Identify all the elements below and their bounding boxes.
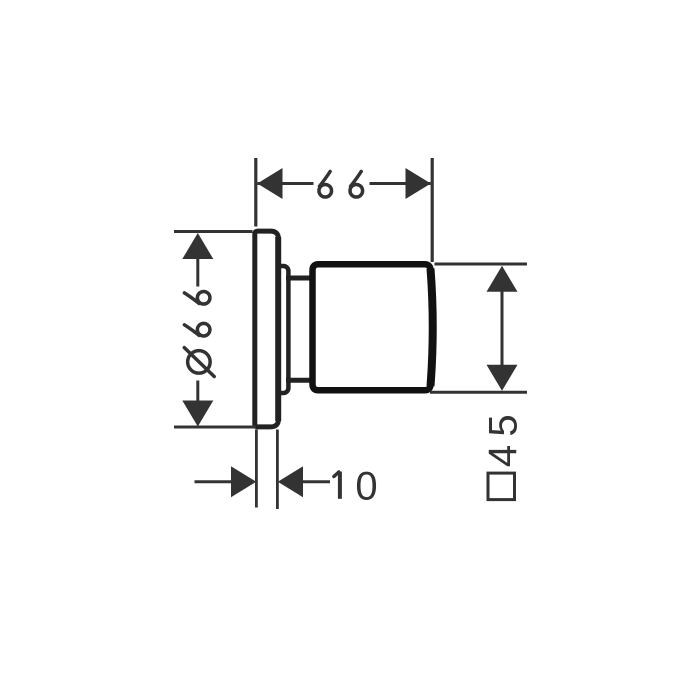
stem bottom line: [286, 378, 313, 383]
dimension D66: value label digit 6 (rotated, lower): [184, 323, 210, 336]
dimension 66: value label digit 6: [319, 172, 332, 198]
dimension 10: right-pointing arrowhead: [231, 466, 256, 497]
escutcheon plate (side view): [255, 231, 279, 427]
stem top line: [286, 276, 313, 281]
dimension 45: bottom extension line: [430, 391, 527, 394]
dimension D66: diameter symbol circle: [188, 351, 211, 374]
dimension 10: dimension line left segment: [195, 480, 233, 483]
dimension D66: value label digit 6 (rotated, upper): [184, 291, 210, 304]
dimension 66: dimension line right segment: [370, 182, 431, 185]
dimension D66: bottom extension line: [174, 426, 256, 429]
dimension 66: right arrowhead: [406, 168, 431, 199]
dimension D66: down arrowhead: [182, 401, 213, 427]
handle (rounded square knob): [313, 264, 433, 390]
dimension 66: value label digit 6 (second): [350, 172, 363, 198]
dimension 66: left arrowhead: [257, 168, 282, 199]
dimension 10: left extension line: [255, 430, 258, 508]
dimension D66: top extension line: [174, 230, 253, 233]
dimension D66: diameter symbol slash: [184, 348, 214, 377]
escutcheon plate right edge emphasis: [275, 237, 281, 421]
dimension 10: right extension line: [276, 430, 279, 510]
dimension 45: dimension line: [501, 291, 504, 367]
dimension 66: left extension line: [254, 158, 257, 227]
dimension 66: dimension line left segment: [258, 182, 314, 185]
svg-text:0: 0: [355, 465, 377, 509]
dimension 66: right extension line: [431, 158, 434, 262]
dimension 45: square symbol: [488, 473, 515, 500]
svg-text:5: 5: [482, 414, 526, 436]
sleeve (valve body behind handle): [268, 266, 288, 393]
dimension 45: down arrowhead: [487, 365, 518, 391]
dimension D66: up arrowhead: [182, 233, 213, 259]
handle right edge thick contour: [431, 269, 433, 387]
dimension 45: up arrowhead: [487, 266, 518, 292]
svg-text:4: 4: [481, 445, 525, 467]
dimension 10: value label digit 1 flag: [334, 472, 339, 477]
dimension 45: top extension line: [435, 263, 528, 266]
dimension D66: dimension line lower segment: [196, 381, 199, 402]
dimension 10: value label digit 1 stem: [338, 472, 342, 499]
dimension 10: left-pointing arrowhead: [278, 466, 303, 497]
dimension 10: dimension line right segment: [303, 480, 331, 483]
dimension D66: dimension line upper segment: [196, 258, 199, 287]
